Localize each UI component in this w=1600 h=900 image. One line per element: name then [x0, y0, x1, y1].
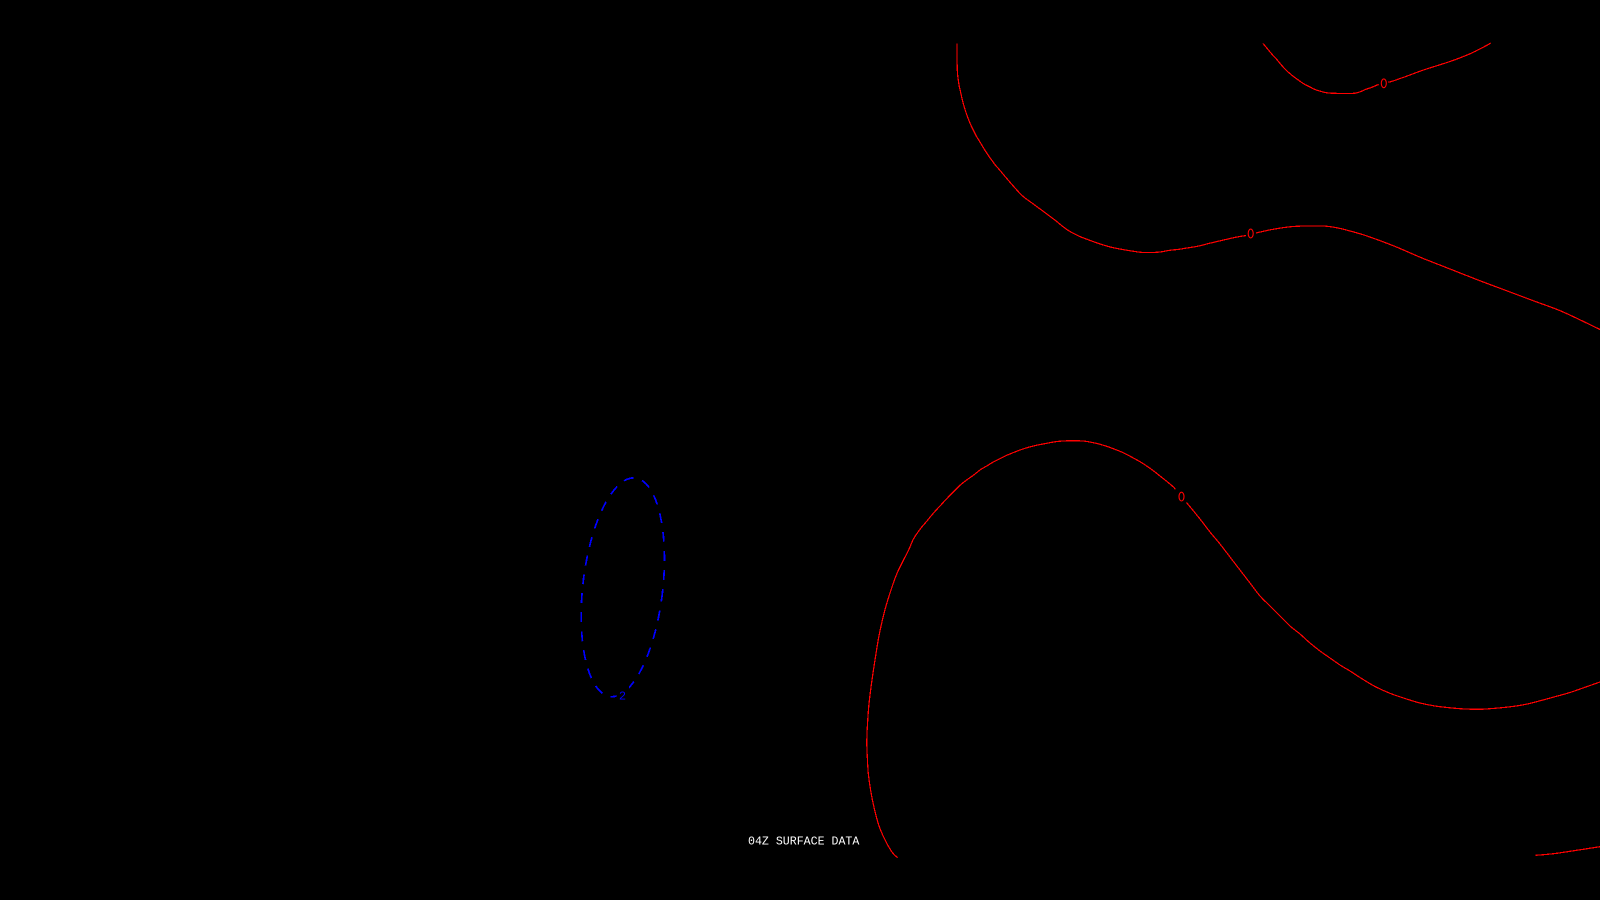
contour line 0 upper-right, left part — [1263, 44, 1379, 94]
contour line 0 lower arch, right part — [1187, 503, 1600, 710]
negative contour -2: blue dashed ellipse — [571, 473, 675, 702]
contour line 0 middle, left part — [957, 44, 1246, 253]
gap for ellipse label — [617, 685, 630, 702]
contour line 0 lower arch, left part — [867, 441, 1176, 858]
svg-text:2: 2 — [619, 690, 626, 704]
contour line 0 upper-right, right part — [1388, 43, 1490, 82]
contour label 0 (lower arch) — [1179, 492, 1184, 501]
contour line 0 middle, right part — [1256, 226, 1600, 330]
contour line fragment bottom-right corner — [1535, 847, 1600, 856]
svg-text:04Z SURFACE DATA: 04Z SURFACE DATA — [748, 835, 859, 848]
contour label 0 (middle line) — [1248, 229, 1253, 238]
contour label 0 (upper-right line) — [1381, 79, 1386, 88]
